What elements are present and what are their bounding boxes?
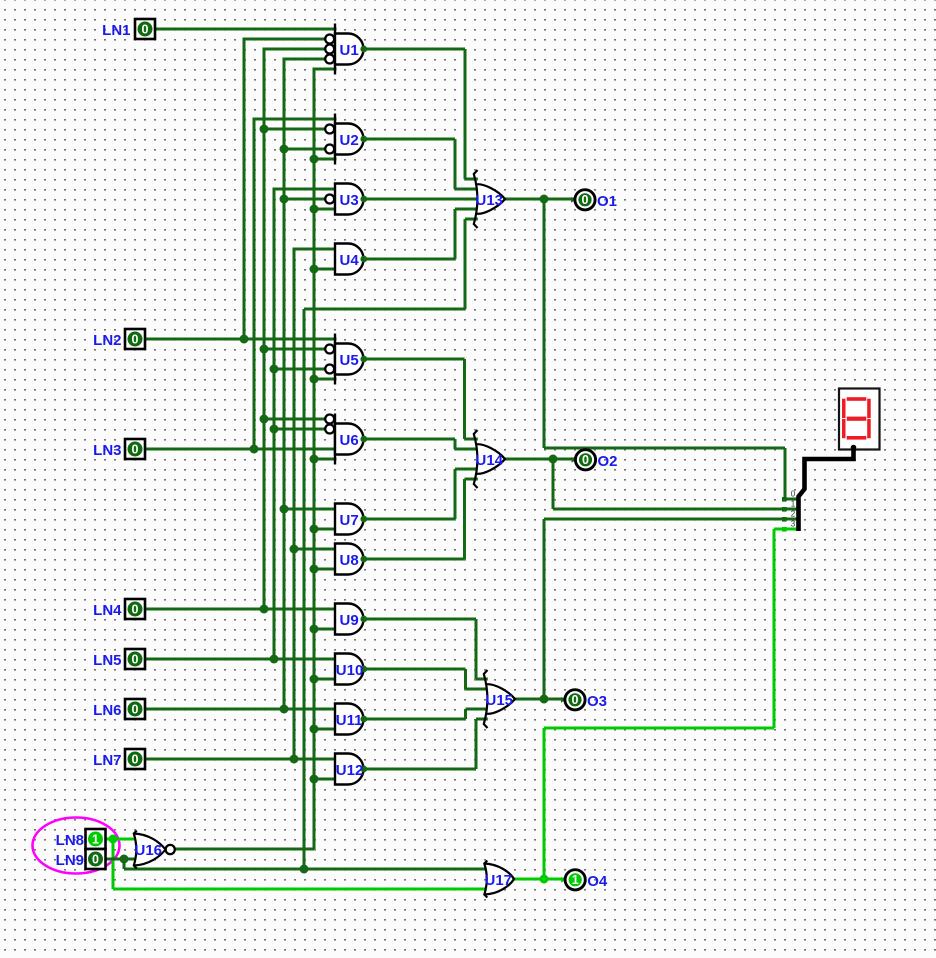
svg-text:U10: U10	[336, 662, 364, 679]
svg-text:U1: U1	[340, 42, 359, 59]
svg-text:U3: U3	[340, 192, 359, 209]
NOR gate U16	[134, 831, 175, 869]
AND gate U2	[325, 114, 367, 165]
AND gate U6	[325, 414, 367, 465]
AND gate U10	[335, 654, 367, 685]
highlight ellipse around LN8/LN9	[33, 818, 120, 874]
svg-text:LN5: LN5	[93, 652, 121, 669]
wire net U12 output to U15.in5	[364, 719, 488, 769]
svg-text:0: 0	[92, 853, 99, 867]
svg-text:O3: O3	[587, 693, 607, 710]
wire net O4 (U17 output to pin O4 and display input 3, active high)	[514, 529, 798, 884]
svg-text:0: 0	[582, 193, 589, 207]
input pin LN6	[93, 699, 145, 719]
display input pads	[782, 497, 787, 532]
svg-text:U15: U15	[486, 692, 514, 709]
svg-text:0: 0	[132, 443, 139, 457]
wire net U2 output to U13.in2	[364, 139, 479, 189]
wire net LN5 (LN5 pin to U10.in1, bus F to U3.in1, U5/U6 bubbles)	[145, 188, 337, 664]
svg-text:LN6: LN6	[93, 702, 121, 719]
wire net O3 (U15 output to pin O3 and display input 2)	[514, 519, 798, 704]
input pin LN7	[93, 749, 145, 769]
svg-text:0: 0	[572, 693, 579, 707]
svg-text:U13: U13	[476, 192, 504, 209]
svg-text:LN7: LN7	[93, 752, 121, 769]
wire net U16 output (NOR out, bus D feeding bottom inputs of U1..U12)	[175, 68, 337, 850]
svg-text:1: 1	[572, 873, 579, 887]
svg-text:U14: U14	[476, 452, 504, 469]
wire net LN1 (LN1 pin to U1 input 1)	[155, 28, 337, 31]
svg-text:LN1: LN1	[102, 22, 130, 39]
wire net U7 output to U14.in4	[364, 469, 479, 519]
svg-text:0: 0	[132, 603, 139, 617]
AND gate U1	[325, 24, 367, 75]
svg-text:O4: O4	[587, 873, 608, 890]
wire net U4 output to U13.in4	[364, 209, 479, 259]
OR gate U13	[474, 170, 505, 228]
svg-text:U12: U12	[336, 762, 364, 779]
svg-text:U8: U8	[340, 552, 359, 569]
svg-text:U2: U2	[340, 132, 359, 149]
svg-text:0: 0	[132, 703, 139, 717]
AND gate U11	[335, 704, 367, 735]
wire net LN8 (LN8 pin to U16.in1 and down to U17.in2, active high)	[106, 835, 490, 890]
display wire harness	[799, 445, 857, 531]
svg-text:0: 0	[132, 333, 139, 347]
svg-text:U9: U9	[340, 612, 359, 629]
svg-text:0: 0	[132, 653, 139, 667]
input pin LN3	[93, 439, 145, 459]
svg-text:LN9: LN9	[56, 852, 84, 869]
wire net U6 output to U14.in2	[364, 439, 479, 449]
AND gate U8	[335, 544, 367, 575]
input pin LN4	[93, 599, 145, 619]
input pin LN1	[102, 19, 155, 39]
wire net LN7 (LN7 pin to U12.in1, bus G to U4.in1, U8.in1)	[145, 248, 337, 764]
display pin numbers 0-3	[791, 490, 796, 529]
svg-text:1: 1	[92, 833, 99, 847]
svg-text:0: 0	[582, 453, 589, 467]
AND gate U4	[335, 244, 367, 275]
svg-text:O2: O2	[598, 453, 618, 470]
output pin O3	[561, 690, 607, 710]
input pin LN9	[56, 849, 106, 869]
wire net U10 output to U15.in2	[364, 669, 489, 689]
svg-text:U4: U4	[340, 252, 360, 269]
OR gate U15	[484, 670, 515, 728]
svg-text:0: 0	[791, 490, 796, 499]
output pin O2	[572, 450, 618, 470]
wire net LN3 (LN3 pin to U6.in3, bus E to U2.in1)	[145, 118, 337, 454]
AND gate U5	[325, 334, 367, 385]
svg-text:U16: U16	[135, 842, 163, 859]
wire net O1 (U13 output to pin O1 and display input 0)	[504, 195, 798, 500]
wire net LN4 (LN4 pin to U9.in1, bus B to U1/U2/U5/U6 bubbles)	[145, 48, 337, 614]
svg-text:U17: U17	[485, 872, 513, 889]
wire net O2 (U14 output to pin O2 and display input 1)	[504, 455, 798, 510]
input pin LN8	[56, 829, 106, 849]
wire net U11 output to U15.in4	[364, 709, 489, 719]
svg-text:U7: U7	[340, 512, 359, 529]
svg-text:LN3: LN3	[93, 442, 121, 459]
svg-text:0: 0	[142, 23, 149, 37]
svg-text:2: 2	[791, 510, 796, 519]
svg-text:U6: U6	[340, 432, 359, 449]
input pin LN2	[93, 329, 145, 349]
7-segment display DS1	[839, 389, 880, 450]
OR gate U17	[484, 861, 514, 898]
wire net LN9 (LN9 pin to U16.in2, drop to U17.in1, bus H up to U13.in5)	[106, 219, 490, 874]
svg-text:1: 1	[791, 500, 796, 509]
svg-text:3: 3	[791, 520, 796, 529]
wire net U5 output to U14.in1	[364, 359, 478, 439]
svg-text:LN8: LN8	[56, 832, 84, 849]
AND gate U9	[335, 604, 367, 635]
wire net U1 output to U13.in1	[364, 49, 478, 179]
svg-text:U5: U5	[340, 352, 359, 369]
svg-text:0: 0	[132, 753, 139, 767]
wire net LN2 (LN2 pin to U5.in1, bus A to U1 bubble 1)	[145, 38, 337, 344]
svg-text:LN2: LN2	[93, 332, 121, 349]
output pin O1	[571, 190, 617, 210]
AND gate U12	[335, 754, 367, 785]
wire net LN6 (LN6 pin to U11.in1, bus C to U1/U2/U3 bubbles, U7.in1)	[145, 58, 337, 714]
svg-text:LN4: LN4	[93, 602, 122, 619]
wire net U9 output to U15.in1	[364, 619, 488, 679]
output pin O4	[561, 870, 608, 890]
OR gate U14	[474, 430, 505, 488]
svg-text:O1: O1	[597, 193, 617, 210]
AND gate U7	[335, 504, 367, 535]
wire net U3 output to U13.in3	[364, 198, 479, 201]
wire net U8 output to U14.in5	[364, 479, 478, 559]
svg-text:U11: U11	[336, 712, 363, 729]
input pin LN5	[93, 649, 145, 669]
AND gate U3	[325, 184, 367, 215]
